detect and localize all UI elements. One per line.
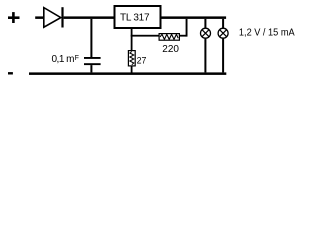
svg-text:1,2 V / 15 mA: 1,2 V / 15 mA xyxy=(239,27,295,39)
svg-text:0,1 m: 0,1 m xyxy=(52,54,75,65)
svg-text:27: 27 xyxy=(137,55,147,65)
svg-text:220: 220 xyxy=(162,44,179,55)
svg-text:F: F xyxy=(75,55,79,62)
svg-text:TL 317: TL 317 xyxy=(120,13,150,24)
